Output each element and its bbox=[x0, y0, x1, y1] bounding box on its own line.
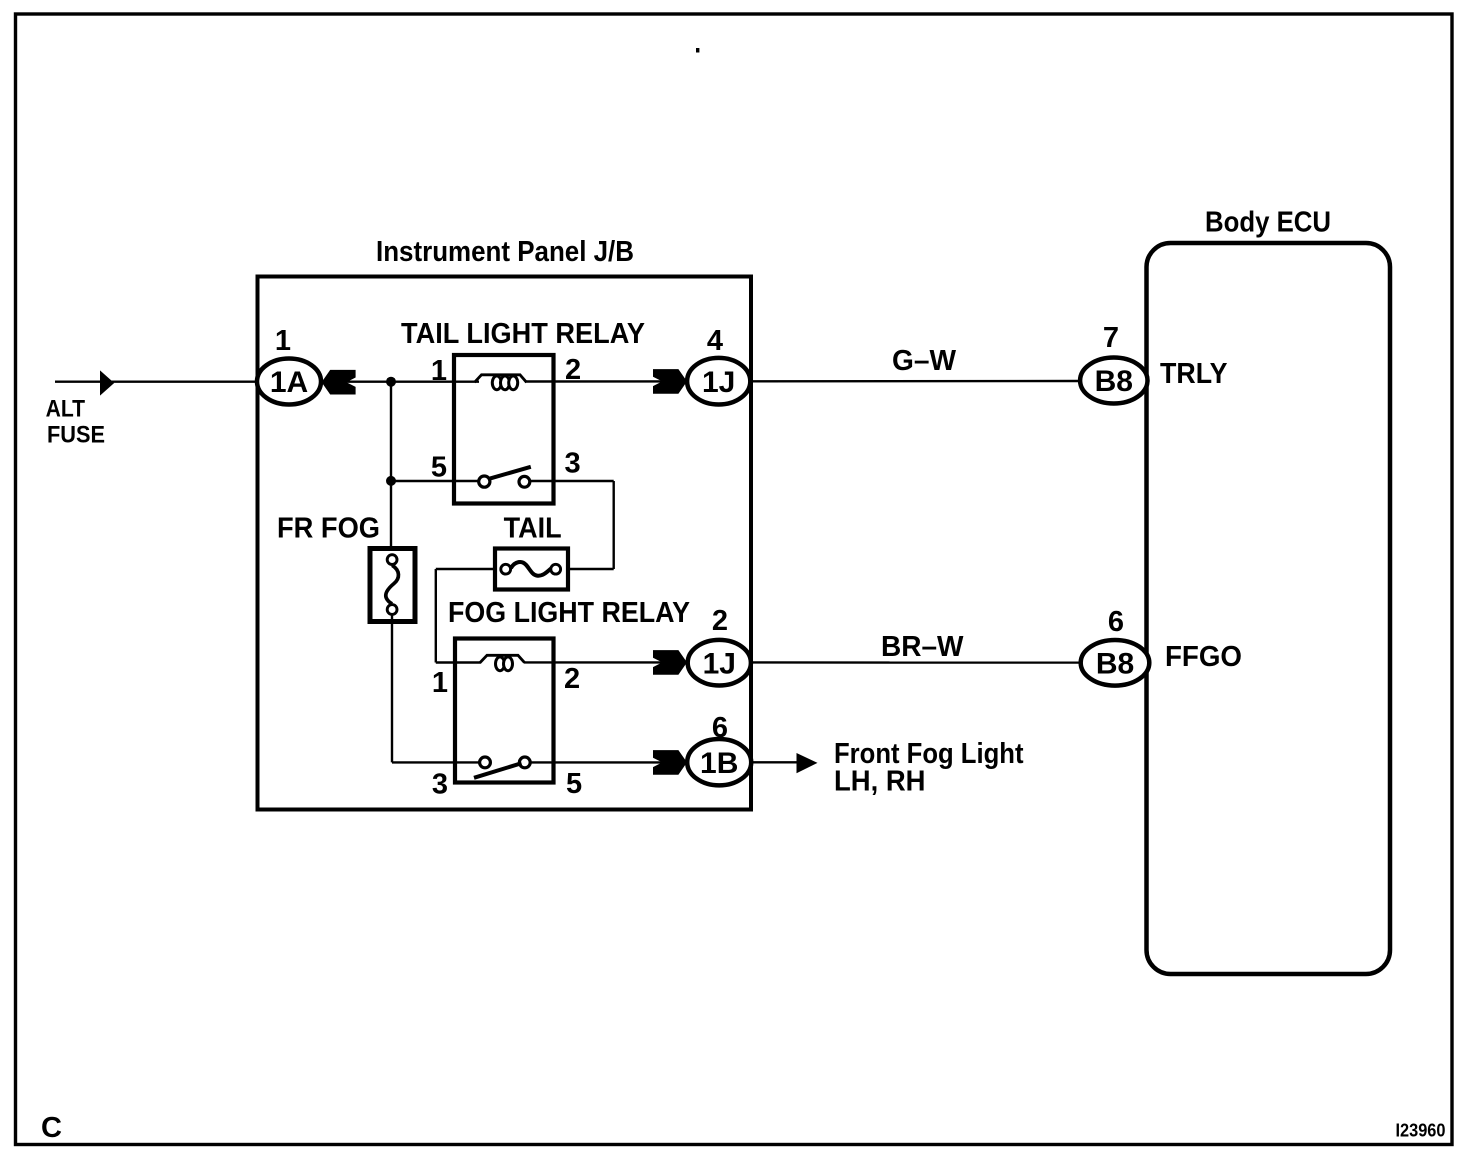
fog relay coil hump bbox=[480, 655, 525, 662]
svg-text:1B: 1B bbox=[700, 747, 738, 780]
svg-text:ALT: ALT bbox=[46, 396, 86, 423]
svg-text:2: 2 bbox=[565, 354, 581, 386]
svg-text:C: C bbox=[41, 1112, 62, 1144]
chevron arrow into connector 1J row1 (right pointing) bbox=[653, 369, 687, 394]
svg-text:3: 3 bbox=[432, 769, 448, 801]
svg-text:TAIL: TAIL bbox=[504, 513, 562, 545]
wire: tail relay switch to pin 3 bbox=[530, 480, 613, 482]
wire: tail relay pin 2 to connector 1J to B8 (G-W net) bbox=[525, 380, 1080, 383]
tail relay switch contact right bbox=[519, 476, 530, 487]
svg-text:2: 2 bbox=[712, 605, 728, 637]
svg-text:6: 6 bbox=[1108, 606, 1124, 638]
FR FOG fuse top terminal bbox=[387, 555, 397, 565]
tail relay coil loops bbox=[492, 376, 501, 390]
fog relay coil loops bbox=[496, 657, 505, 671]
svg-text:B8: B8 bbox=[1095, 365, 1133, 398]
svg-text:G–W: G–W bbox=[892, 345, 957, 377]
svg-text:FUSE: FUSE bbox=[47, 421, 105, 448]
FR FOG fuse bottom terminal bbox=[387, 605, 397, 615]
connector 1J oval row2 bbox=[688, 640, 751, 686]
wire: pin 3 vertical drop to TAIL fuse bbox=[613, 481, 615, 569]
fog relay switch contact left bbox=[480, 757, 491, 768]
connector 1A oval bbox=[257, 359, 321, 405]
arrowhead to front fog lights bbox=[797, 753, 818, 773]
connector 1B oval bbox=[687, 739, 751, 785]
svg-text:FR FOG: FR FOG bbox=[277, 513, 380, 545]
wire: FR FOG fuse down to fog relay pin 3 row bbox=[391, 615, 393, 762]
tail relay switch lever bbox=[490, 467, 531, 479]
svg-text:5: 5 bbox=[566, 768, 582, 800]
svg-text:1J: 1J bbox=[702, 366, 735, 399]
node: junction dot at 1A branch bbox=[386, 377, 396, 387]
svg-text:7: 7 bbox=[1103, 322, 1119, 354]
svg-text:B8: B8 bbox=[1096, 648, 1134, 681]
svg-text:1A: 1A bbox=[270, 366, 308, 399]
TAIL fuse element wave bbox=[511, 562, 551, 576]
chevron arrow into connector 1J row2 (right pointing) bbox=[653, 650, 687, 675]
tail relay switch contact left bbox=[479, 476, 490, 487]
ECU: Body ECU box bbox=[1147, 243, 1391, 974]
svg-text:2: 2 bbox=[564, 663, 580, 695]
wire: branch to tail relay pin 5 bbox=[391, 480, 479, 482]
svg-text:1: 1 bbox=[432, 667, 448, 699]
svg-text:TRLY: TRLY bbox=[1160, 358, 1228, 390]
svg-text:5: 5 bbox=[431, 452, 447, 484]
wire: vertical down to fog relay pin 1 bbox=[435, 569, 437, 663]
relay K2: fog light relay box bbox=[455, 639, 554, 783]
fuse F1: FR FOG fuse box bbox=[370, 549, 415, 622]
connector B8 oval row2 bbox=[1081, 640, 1150, 686]
wire: into fog relay pin 3 bbox=[392, 761, 480, 763]
svg-text:6: 6 bbox=[712, 712, 728, 744]
fog relay switch contact right bbox=[519, 757, 530, 768]
wire: TAIL fuse left terminal out bbox=[436, 568, 493, 570]
chevron arrow into connector 1A (left pointing) bbox=[322, 370, 356, 395]
svg-text:FFGO: FFGO bbox=[1165, 641, 1242, 673]
fuse F2: TAIL fuse box bbox=[495, 549, 568, 590]
junction block: Instrument Panel J/B box bbox=[258, 277, 752, 810]
FR FOG fuse element squiggle bbox=[386, 565, 399, 604]
svg-text:LH, RH: LH, RH bbox=[834, 766, 926, 798]
connector 1J oval row1 bbox=[687, 358, 750, 405]
svg-text:I23960: I23960 bbox=[1396, 1120, 1446, 1141]
svg-text:1: 1 bbox=[431, 355, 447, 387]
svg-text:4: 4 bbox=[707, 325, 723, 357]
svg-text:Body ECU: Body ECU bbox=[1205, 207, 1331, 239]
TAIL fuse right terminal bbox=[551, 564, 561, 574]
node: junction dot at tail relay pin 5 branch bbox=[386, 476, 396, 486]
tail relay coil hump bbox=[475, 375, 527, 383]
TAIL fuse left terminal bbox=[501, 564, 511, 574]
svg-text:1J: 1J bbox=[703, 648, 736, 681]
svg-text:Instrument Panel J/B: Instrument Panel J/B bbox=[376, 236, 634, 268]
wire: fog relay pin 2 to connector 1J to B8 (BR-W net) bbox=[524, 661, 1080, 664]
wire: into fog relay pin 1 bbox=[436, 661, 481, 663]
svg-text:3: 3 bbox=[565, 448, 581, 480]
relay K1: tail light relay box bbox=[454, 355, 554, 504]
fog relay switch lever bbox=[474, 763, 522, 778]
wire: ALT FUSE feed to connector 1A bbox=[55, 381, 479, 383]
svg-text:1: 1 bbox=[275, 325, 291, 357]
wire: connector 1B out to front fog lights bbox=[751, 761, 798, 763]
arrowhead on ALT FUSE feed wire bbox=[100, 370, 114, 395]
svg-text:FOG LIGHT RELAY: FOG LIGHT RELAY bbox=[448, 597, 690, 629]
chevron arrow into connector 1B (right pointing) bbox=[653, 750, 687, 775]
scan speck bbox=[696, 48, 699, 53]
svg-text:BR–W: BR–W bbox=[881, 631, 964, 663]
wire: fog relay pin 5 to connector 1B bbox=[530, 761, 687, 763]
wire: into TAIL fuse right terminal bbox=[562, 568, 614, 570]
svg-text:TAIL LIGHT RELAY: TAIL LIGHT RELAY bbox=[401, 318, 645, 350]
connector B8 oval row1 bbox=[1080, 358, 1147, 404]
wire: vertical branch down to FR FOG fuse bbox=[390, 382, 392, 556]
